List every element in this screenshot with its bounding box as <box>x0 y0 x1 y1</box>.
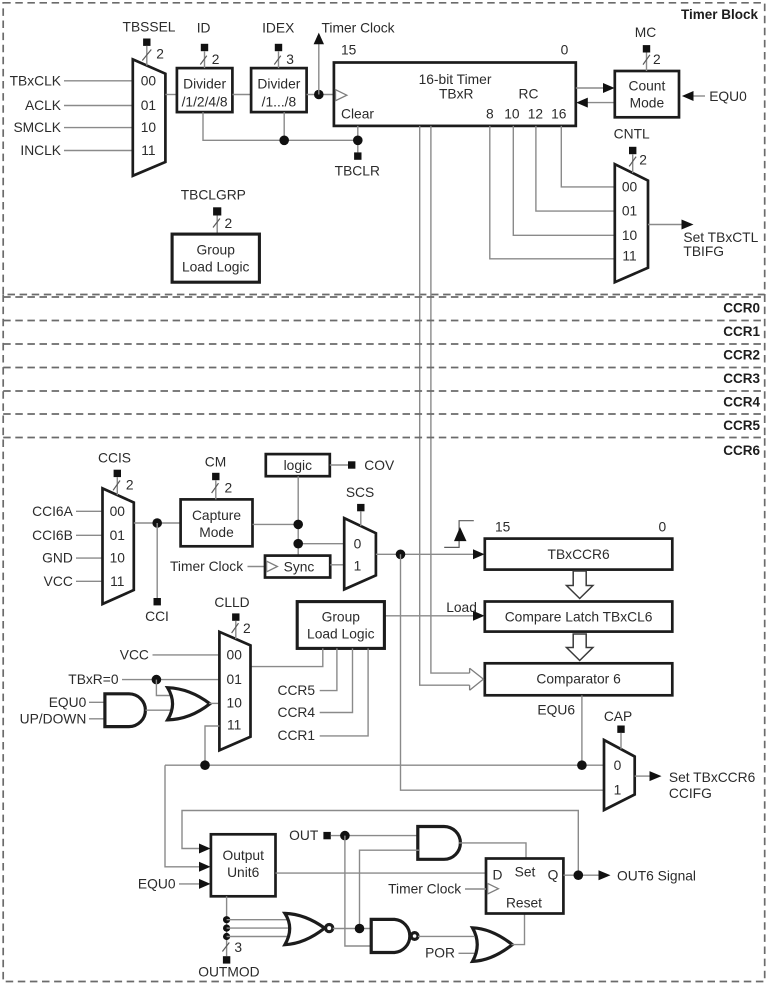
label CCR6 <box>723 443 760 458</box>
svg-text:10: 10 <box>504 107 520 122</box>
wire TBxR bus vertical left (to comparator lower input) <box>420 126 470 685</box>
svg-text:01: 01 <box>141 98 156 113</box>
svg-text:CCR5: CCR5 <box>723 418 760 433</box>
svg-text:SMCLK: SMCLK <box>13 120 61 135</box>
CM select label with 2-bit bus stub <box>205 455 232 500</box>
svg-text:Load Logic: Load Logic <box>307 626 375 641</box>
CCR4 band dashed separator <box>3 391 765 410</box>
wire VCC input <box>44 574 103 589</box>
svg-text:VCC: VCC <box>120 648 149 663</box>
svg-text:/1.../8: /1.../8 <box>262 95 297 110</box>
svg-text:15: 15 <box>495 519 511 534</box>
wire CCI6B input <box>32 528 102 543</box>
wire CAP output Set TBxCCR6 CCIFG <box>635 770 756 801</box>
comparator 6 block <box>485 663 673 695</box>
svg-text:Group: Group <box>197 243 236 258</box>
svg-text:TBxCLK: TBxCLK <box>10 73 62 88</box>
IDEX select label with 3-bit bus stub <box>262 21 294 68</box>
svg-text:IDEX: IDEX <box>262 21 294 36</box>
svg-text:12: 12 <box>528 107 543 122</box>
svg-text:0: 0 <box>614 758 622 773</box>
TBSSEL select label with 2-bit bus stub <box>123 20 176 66</box>
wire SCS output with junction to TBxCCR6 arrow <box>376 549 485 559</box>
wire EQU0 into Output Unit6 input 3 <box>138 876 211 891</box>
svg-text:Capture: Capture <box>192 508 241 523</box>
svg-text:Divider: Divider <box>183 77 226 92</box>
svg-text:UP/DOWN: UP/DOWN <box>20 712 87 727</box>
OUTMOD 3-bit bus marker and label <box>198 940 259 980</box>
wire EQU6 net horizontal to CAP 0 with junctions <box>165 760 604 770</box>
svg-text:11: 11 <box>622 249 636 264</box>
Capture Mode block <box>181 499 253 546</box>
svg-text:0: 0 <box>561 43 569 58</box>
wire SMCLK input <box>13 120 132 135</box>
CCR3 band dashed separator <box>3 368 765 387</box>
wire Output Unit6 to D input <box>276 872 487 874</box>
svg-text:10: 10 <box>622 228 638 243</box>
TBCLR clear net wires <box>203 112 363 152</box>
svg-text:OUT: OUT <box>289 828 319 843</box>
svg-text:CLLD: CLLD <box>214 595 249 610</box>
and gate U-CLLD (EQU0, UP/DOWN) <box>20 694 172 727</box>
svg-text:16-bit Timer: 16-bit Timer <box>419 72 492 87</box>
svg-text:CCI: CCI <box>145 609 169 624</box>
svg-text:EQU0: EQU0 <box>709 89 747 104</box>
svg-text:ID: ID <box>197 21 211 36</box>
svg-text:0: 0 <box>354 537 362 552</box>
wire capture mode output and logic drop with junctions <box>253 476 345 555</box>
wire CCI6A input <box>32 504 102 519</box>
svg-text:2: 2 <box>212 52 220 67</box>
TBCLGRP select label with 2-bit bus stub <box>181 187 246 234</box>
CCR0 band dashed separator <box>3 297 765 315</box>
svg-text:Count: Count <box>628 79 665 94</box>
register Compare Latch TBxCL6 <box>485 602 673 632</box>
wire Load from Group Load Logic to Compare Latch <box>384 600 484 621</box>
svg-text:2: 2 <box>639 153 647 168</box>
mux CCIS capture input selector <box>103 488 134 604</box>
wire divider1 to divider2 <box>232 94 251 96</box>
svg-text:CCR6: CCR6 <box>723 443 760 458</box>
Group Load Logic block (CCR6) <box>297 602 384 649</box>
svg-text:OUTMOD: OUTMOD <box>198 965 259 980</box>
capture edge latch symbol <box>444 521 474 548</box>
Output Unit6 block <box>211 834 276 896</box>
CCR5 band dashed separator <box>3 414 765 433</box>
svg-text:01: 01 <box>227 672 242 687</box>
svg-text:CNTL: CNTL <box>614 127 650 142</box>
svg-text:SCS: SCS <box>346 485 374 500</box>
svg-text:2: 2 <box>126 478 134 493</box>
svg-text:11: 11 <box>110 574 124 589</box>
svg-text:VCC: VCC <box>44 574 73 589</box>
svg-text:EQU0: EQU0 <box>138 876 176 891</box>
16-bit timer register block TBxR <box>334 43 576 126</box>
svg-text:Load Logic: Load Logic <box>182 260 250 275</box>
wire timer bit16 to CNTL input 00 <box>561 126 615 187</box>
OUT marker and wire to and gate with junction <box>289 828 419 843</box>
svg-text:TBxCCR6: TBxCCR6 <box>548 547 610 562</box>
wire timer bit12 to CNTL input 01 <box>536 126 615 211</box>
or gate POR reset <box>425 914 524 962</box>
open bus arrowhead into comparator <box>470 668 484 690</box>
CCR6 section dashed boundary <box>3 438 765 982</box>
svg-text:10: 10 <box>110 551 126 566</box>
svg-text:CCR4: CCR4 <box>278 705 316 720</box>
svg-text:TBCLR: TBCLR <box>335 164 380 179</box>
mux TBSSEL clock-source selector <box>133 59 166 175</box>
Sync block with clock triangle <box>265 556 330 578</box>
OUTMOD drop from Output Unit6 with three taps <box>223 896 295 956</box>
svg-text:Timer Clock: Timer Clock <box>322 21 395 36</box>
register TBxCCR6 <box>485 519 673 569</box>
wire OUT6 feedback into Output Unit6 input 1 <box>182 811 578 876</box>
logic block <box>266 454 330 476</box>
svg-text:CCR1: CCR1 <box>723 324 760 339</box>
Timer Block dashed boundary <box>3 3 765 295</box>
wire TBxR bus vertical right (to comparator upper input) <box>431 126 470 673</box>
svg-text:2: 2 <box>225 481 233 496</box>
TBCLR terminal marker and label <box>335 152 380 178</box>
Group Load Logic block (timer) <box>172 234 259 282</box>
svg-text:CM: CM <box>205 455 226 470</box>
svg-text:Clear: Clear <box>341 107 374 122</box>
svg-text:Reset: Reset <box>506 896 542 911</box>
mux SCS synchronize selector <box>344 518 376 589</box>
wire Count Mode to timer (left arrow) <box>576 98 615 108</box>
svg-text:Unit6: Unit6 <box>227 865 260 880</box>
svg-text:2: 2 <box>243 621 251 636</box>
svg-text:CCI6B: CCI6B <box>32 528 73 543</box>
svg-text:CAP: CAP <box>604 709 632 724</box>
svg-text:Timer Clock: Timer Clock <box>388 882 461 897</box>
svg-text:11: 11 <box>141 143 155 158</box>
svg-text:CCR4: CCR4 <box>723 395 760 410</box>
svg-text:CCI6A: CCI6A <box>32 504 73 519</box>
svg-text:00: 00 <box>141 73 157 88</box>
wire Timer Clock into Sync <box>170 559 265 574</box>
svg-text:INCLK: INCLK <box>20 143 61 158</box>
svg-text:8: 8 <box>486 107 494 122</box>
wire CCIS mux output to Capture Mode with junction <box>134 518 181 528</box>
wire and gate output to flipflop Set <box>459 843 527 859</box>
wire Q output OUT6 Signal with junction <box>563 868 696 883</box>
svg-text:RC: RC <box>519 87 539 102</box>
svg-text:TBCLGRP: TBCLGRP <box>181 187 246 202</box>
mux CLLD load event selector <box>219 632 250 751</box>
svg-text:Set TBxCTL: Set TBxCTL <box>683 230 758 245</box>
wire capture path down to CAP mux input 1 <box>401 554 605 790</box>
svg-text:POR: POR <box>425 946 455 961</box>
wire timer bit10 to CNTL input 10 <box>513 126 615 235</box>
svg-text:TBxR: TBxR <box>439 87 474 102</box>
svg-text:2: 2 <box>156 47 164 62</box>
svg-text:Q: Q <box>548 867 559 882</box>
wire CCR5 into Group Load Logic <box>278 648 337 698</box>
svg-text:TBxR=0: TBxR=0 <box>68 672 119 687</box>
wire CNTL output Set TBxCTL TBIFG <box>648 220 759 260</box>
wire GND input <box>42 551 102 566</box>
svg-text:3: 3 <box>234 940 242 955</box>
svg-text:Comparator 6: Comparator 6 <box>536 672 621 687</box>
wire CCR1 into Group Load Logic <box>278 648 369 743</box>
mux CAP capture/compare selector <box>604 740 635 810</box>
svg-text:Load: Load <box>446 600 477 615</box>
svg-text:Set TBxCCR6: Set TBxCCR6 <box>669 770 756 785</box>
wire nor output junction up to and gate input 2 <box>360 850 420 928</box>
svg-text:Mode: Mode <box>199 525 234 540</box>
MC select label with 2-bit bus stub <box>635 25 661 71</box>
svg-text:CCR3: CCR3 <box>723 371 760 386</box>
svg-text:TBIFG: TBIFG <box>683 244 724 259</box>
CCR1 band dashed separator <box>3 321 765 340</box>
nor gate (outmod decode) with bubble <box>285 913 372 944</box>
divider ID block /1/2/4/8 <box>177 68 233 112</box>
label Timer Block <box>681 7 759 22</box>
wire timer RC to Count Mode (right arrow) <box>576 83 615 93</box>
wire TBxCLK input <box>10 73 133 88</box>
Count Mode block <box>615 71 679 117</box>
CNTL select label with 2-bit bus stub <box>614 127 650 173</box>
svg-text:logic: logic <box>284 458 312 473</box>
svg-text:1: 1 <box>614 782 622 797</box>
svg-text:ACLK: ACLK <box>25 98 62 113</box>
svg-text:Output: Output <box>222 848 264 863</box>
svg-text:OUT6 Signal: OUT6 Signal <box>617 868 696 883</box>
svg-text:Sync: Sync <box>284 560 315 575</box>
or gate into CLLD 10 <box>168 688 220 720</box>
svg-text:Timer Clock: Timer Clock <box>170 559 243 574</box>
svg-text:10: 10 <box>227 696 243 711</box>
nand gate with bubble <box>371 919 474 952</box>
svg-text:2: 2 <box>225 216 233 231</box>
svg-text:Timer Block: Timer Block <box>681 7 759 22</box>
svg-text:15: 15 <box>341 43 357 58</box>
svg-text:GND: GND <box>42 551 73 566</box>
wire CLLD mux output to Group Load Logic <box>251 648 323 666</box>
svg-text:COV: COV <box>364 458 395 473</box>
CCI tap marker and label <box>145 523 169 624</box>
svg-text:00: 00 <box>622 180 638 195</box>
D flip-flop with Set/Reset <box>486 859 563 914</box>
wire logic output to COV marker <box>330 458 395 473</box>
wire mux to divider1 <box>165 94 177 96</box>
wire OUT down to nand input <box>345 836 372 946</box>
wire EQU6 net down into Output Unit6 input 2 <box>165 765 211 872</box>
svg-text:11: 11 <box>227 718 241 733</box>
wire CLLD 11 up from EQU6 net <box>205 726 219 765</box>
ID select label with 2-bit bus stub <box>197 21 220 68</box>
svg-text:CCR0: CCR0 <box>723 300 760 315</box>
svg-text:D: D <box>493 867 503 882</box>
svg-text:01: 01 <box>110 528 125 543</box>
svg-text:EQU0: EQU0 <box>49 695 87 710</box>
svg-text:2: 2 <box>653 52 661 67</box>
svg-text:CCR5: CCR5 <box>278 683 316 698</box>
wire CCR4 into Group Load Logic <box>278 648 353 720</box>
svg-text:Set: Set <box>515 865 536 880</box>
svg-text:00: 00 <box>110 504 126 519</box>
CCR2 band dashed separator <box>3 344 765 363</box>
svg-text:1: 1 <box>354 558 362 573</box>
svg-text:Compare Latch TBxCL6: Compare Latch TBxCL6 <box>505 609 653 624</box>
wire timer bit8 to CNTL input 11 <box>490 126 615 259</box>
CLLD select label with 2-bit bus stub <box>214 595 250 639</box>
CCIS select label with 2-bit bus stub <box>98 451 134 496</box>
wire ACLK input <box>25 98 133 113</box>
svg-text:01: 01 <box>622 204 637 219</box>
hollow transfer arrow Compare Latch to Comparator <box>567 634 593 661</box>
svg-text:0: 0 <box>659 519 667 534</box>
wire INCLK input <box>20 143 132 158</box>
mux CNTL interrupt selector <box>615 164 648 282</box>
svg-text:16: 16 <box>551 107 567 122</box>
wire Timer Clock into flip-flop <box>388 882 486 897</box>
svg-text:EQU6: EQU6 <box>537 703 575 718</box>
svg-text:10: 10 <box>141 120 157 135</box>
hollow transfer arrow TBxCCR6 to Compare Latch <box>567 571 593 599</box>
wire EQU6 from comparator to CAP mux <box>537 695 581 765</box>
CAP select label with stub <box>604 709 632 749</box>
svg-text:CCR2: CCR2 <box>723 348 760 363</box>
svg-text:3: 3 <box>286 52 294 67</box>
svg-text:TBSSEL: TBSSEL <box>123 20 176 35</box>
Timer Clock tap arrow <box>314 21 395 95</box>
svg-text:CCIS: CCIS <box>98 451 131 466</box>
svg-text:CCIFG: CCIFG <box>669 786 712 801</box>
svg-text:/1/2/4/8: /1/2/4/8 <box>182 95 228 110</box>
wire Sync output to SCS mux <box>330 564 344 566</box>
band side dashed borders <box>3 295 765 438</box>
svg-text:00: 00 <box>227 648 243 663</box>
svg-text:MC: MC <box>635 25 656 40</box>
wire TBxR=0 into CLLD 01 with junction <box>68 672 219 695</box>
svg-text:Mode: Mode <box>630 96 665 111</box>
svg-text:CCR1: CCR1 <box>278 728 316 743</box>
and gate U-OUT <box>418 827 461 860</box>
wire EQU0 into Count Mode <box>682 89 747 104</box>
SCS select label with stub <box>346 485 374 526</box>
svg-text:Divider: Divider <box>257 77 300 92</box>
wire VCC into CLLD 00 <box>120 648 220 663</box>
wire divider2 to timer with junction <box>307 90 334 100</box>
svg-text:Group: Group <box>322 609 361 624</box>
divider IDEX block /1.../8 <box>251 68 307 112</box>
